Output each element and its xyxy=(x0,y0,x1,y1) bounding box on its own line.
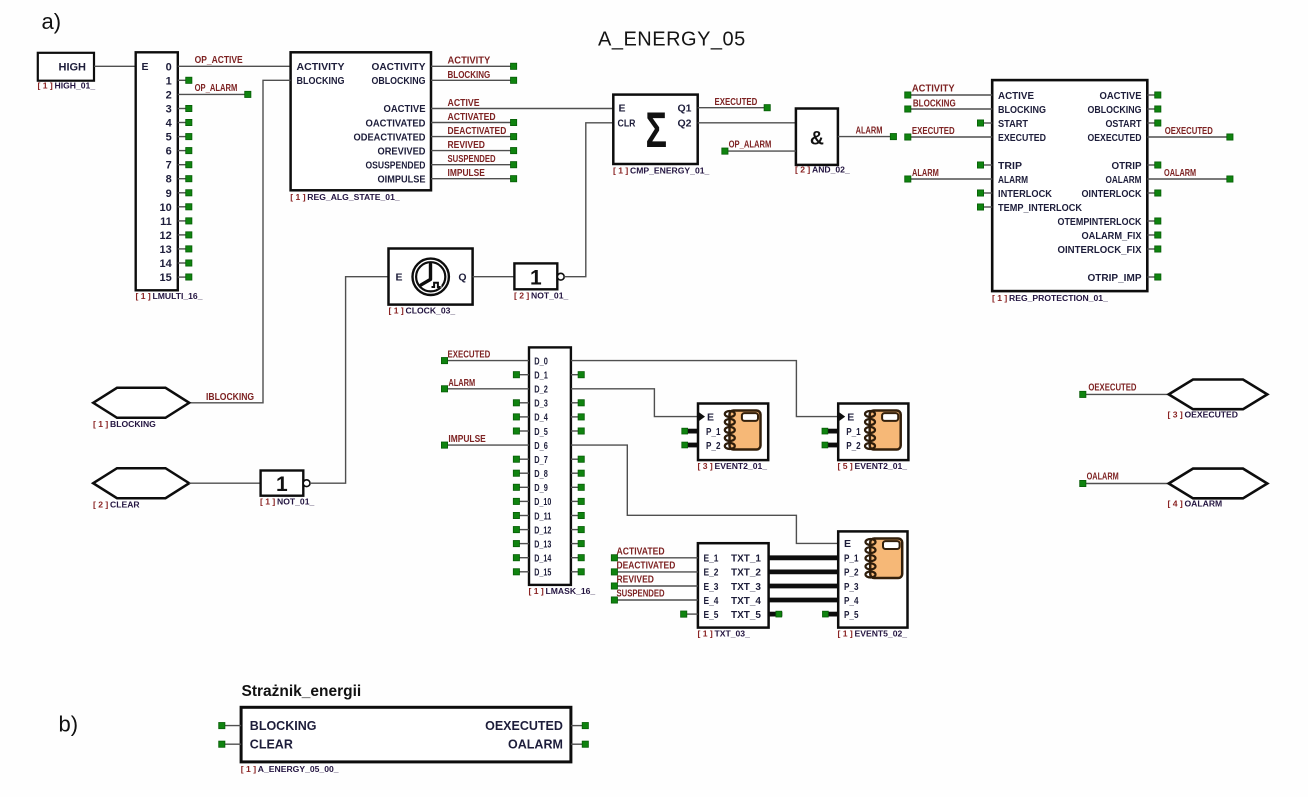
svg-text:E_3: E_3 xyxy=(704,581,719,593)
svg-text:TXT_1: TXT_1 xyxy=(731,553,761,565)
wire D_0 to EVENT2-5 E xyxy=(571,361,838,417)
net REVIVED wire to E_3 xyxy=(611,583,698,589)
pin OALARM stub b xyxy=(571,741,589,747)
summation block CMP_ENERGY U2 xyxy=(613,95,697,164)
svg-text:E_5: E_5 xyxy=(704,609,719,621)
svg-text:BLOCKING: BLOCKING xyxy=(913,99,956,110)
event block EVENT2 instance 3 xyxy=(682,404,768,461)
net SUSPENDED wire xyxy=(431,162,517,168)
svg-text:a): a) xyxy=(42,9,62,34)
net BLOCKING wire xyxy=(431,77,517,83)
net ACTIVE wire xyxy=(431,108,613,110)
svg-text:D_1: D_1 xyxy=(534,371,548,382)
svg-text:TRIP: TRIP xyxy=(998,160,1022,172)
svg-text:IBLOCKING: IBLOCKING xyxy=(206,392,254,403)
svg-text:IMPULSE: IMPULSE xyxy=(448,434,486,445)
label [1] EVENT5_02_ xyxy=(838,629,908,639)
label [2] NOT_01_ xyxy=(514,291,568,301)
label [2] AND_02_ xyxy=(795,165,850,175)
svg-text:CLOCK_03_: CLOCK_03_ xyxy=(406,306,456,316)
label [1] TXT_03_ xyxy=(698,629,751,639)
svg-text:[ 1 ]: [ 1 ] xyxy=(992,293,1007,303)
svg-text:REG_PROTECTION_01_: REG_PROTECTION_01_ xyxy=(1009,293,1108,303)
output connector hexagon OEXECUTED xyxy=(1169,380,1268,410)
net OP_ALARM wire to AND xyxy=(722,148,796,154)
net label SUSPENDED xyxy=(448,154,496,165)
net label ACTIVITY xyxy=(448,56,491,67)
label [1] REG_PROTECTION_01_ xyxy=(992,293,1108,303)
svg-text:Σ: Σ xyxy=(646,102,668,158)
svg-text:OP_ALARM: OP_ALARM xyxy=(729,139,772,150)
net EXECUTED wire from Q1 xyxy=(698,105,771,111)
svg-text:OSUSPENDED: OSUSPENDED xyxy=(366,160,426,172)
svg-text:8: 8 xyxy=(166,174,172,186)
pin OALARM_FIX stub xyxy=(1147,232,1161,238)
svg-text:[ 1 ]: [ 1 ] xyxy=(136,291,151,301)
net label ACTIVATED xyxy=(617,547,665,558)
svg-text:[ 1 ]: [ 1 ] xyxy=(838,629,853,639)
svg-text:[ 1 ]: [ 1 ] xyxy=(241,764,256,774)
net label EXECUTED in xyxy=(912,126,955,137)
svg-text:OACTIVE: OACTIVE xyxy=(384,103,426,115)
net ALARM wire to D_2 xyxy=(441,386,529,392)
svg-text:OALARM: OALARM xyxy=(1164,168,1196,179)
label [1] HIGH_01_ xyxy=(38,81,96,91)
svg-text:P_1: P_1 xyxy=(844,553,859,565)
svg-text:P_2: P_2 xyxy=(706,440,721,452)
svg-text:OBLOCKING: OBLOCKING xyxy=(372,75,426,87)
wire D_2 to EVENT2-3 E xyxy=(571,389,698,417)
svg-text:P_2: P_2 xyxy=(846,440,861,452)
svg-text:[ 5 ]: [ 5 ] xyxy=(838,461,853,471)
constant source HIGH xyxy=(38,53,94,81)
pin TEMP_INTERLOCK stub xyxy=(977,204,992,210)
svg-text:E: E xyxy=(847,411,854,423)
label [1] NOT_01_ xyxy=(260,497,314,507)
net label ALARM D2 xyxy=(448,378,475,389)
svg-text:ACTIVITY: ACTIVITY xyxy=(912,84,955,95)
svg-text:E_4: E_4 xyxy=(704,595,719,607)
svg-text:REVIVED: REVIVED xyxy=(617,575,654,586)
svg-text:ACTIVATED: ACTIVATED xyxy=(617,547,665,558)
svg-text:D_15: D_15 xyxy=(534,568,551,579)
svg-text:[ 2 ]: [ 2 ] xyxy=(514,291,529,301)
svg-text:[ 1 ]: [ 1 ] xyxy=(93,419,108,429)
bus bar TXT_5 with terminal xyxy=(769,611,783,617)
svg-text:REVIVED: REVIVED xyxy=(448,140,485,151)
net label ACTIVATED xyxy=(448,112,496,123)
svg-text:D_3: D_3 xyxy=(534,399,548,410)
svg-text:D_14: D_14 xyxy=(534,554,551,565)
svg-text:EXECUTED: EXECUTED xyxy=(912,126,955,137)
net label IBLOCKING xyxy=(206,392,254,403)
svg-text:OACTIVE: OACTIVE xyxy=(1100,90,1142,102)
svg-text:ALARM: ALARM xyxy=(856,126,883,137)
svg-text:D_12: D_12 xyxy=(534,525,551,536)
svg-text:1: 1 xyxy=(276,473,288,496)
svg-text:P_1: P_1 xyxy=(706,426,721,438)
net EXECUTED wire to D_0 xyxy=(441,358,529,364)
svg-text:HIGH: HIGH xyxy=(59,62,87,74)
net label OALARM xyxy=(1087,472,1119,483)
svg-text:Q2: Q2 xyxy=(677,118,691,130)
svg-text:11: 11 xyxy=(160,216,172,228)
svg-text:ACTIVITY: ACTIVITY xyxy=(448,56,491,67)
svg-text:OEXECUTED: OEXECUTED xyxy=(1088,382,1136,393)
net ALARM wire from AND xyxy=(838,134,897,140)
svg-text:E: E xyxy=(619,103,626,115)
net DEACTIVATED wire to E_2 xyxy=(611,569,698,575)
function block REG_ALG_STATE U1 xyxy=(291,52,431,190)
net label REVIVED xyxy=(617,575,654,586)
pin OTRIP_IMP stub xyxy=(1147,274,1161,280)
net label ACTIVITY in xyxy=(912,84,955,95)
svg-text:EVENT2_01_: EVENT2_01_ xyxy=(715,461,768,471)
label [1] LMULTI_16_ xyxy=(136,291,203,301)
svg-text:12: 12 xyxy=(160,230,172,242)
svg-text:OTRIP_IMP: OTRIP_IMP xyxy=(1088,272,1142,284)
svg-text:E: E xyxy=(707,411,714,423)
svg-text:E: E xyxy=(844,538,851,550)
svg-text:[ 1 ]: [ 1 ] xyxy=(698,629,713,639)
svg-text:OTEMPINTERLOCK: OTEMPINTERLOCK xyxy=(1058,216,1142,228)
svg-text:D_6: D_6 xyxy=(534,441,548,452)
svg-text:E: E xyxy=(396,272,403,284)
svg-text:OREVIVED: OREVIVED xyxy=(378,145,426,157)
net label IMPULSE D6 xyxy=(448,434,486,445)
svg-text:1: 1 xyxy=(166,75,172,87)
NOT gate U-NOT2 xyxy=(514,263,564,289)
pin OINTERLOCK stub xyxy=(1147,190,1161,196)
svg-text:OALARM: OALARM xyxy=(1185,499,1223,509)
svg-text:CLEAR: CLEAR xyxy=(250,737,293,751)
svg-text:BLOCKING: BLOCKING xyxy=(250,719,317,733)
svg-text:D_4: D_4 xyxy=(534,413,548,424)
net label SUSPENDED xyxy=(617,589,665,600)
net label OALARM out xyxy=(1164,168,1196,179)
macro block A_ENERGY_05_00 xyxy=(241,707,571,762)
svg-text:CMP_ENERGY_01_: CMP_ENERGY_01_ xyxy=(630,166,710,176)
net OALARM wire out xyxy=(1147,176,1233,182)
pin E_5 stub xyxy=(681,611,698,617)
svg-text:BLOCKING: BLOCKING xyxy=(297,75,345,87)
svg-text:ALARM: ALARM xyxy=(912,168,939,179)
net label ALARM in xyxy=(912,168,939,179)
svg-text:[ 3 ]: [ 3 ] xyxy=(698,461,713,471)
net ALARM wire in xyxy=(905,176,993,182)
LMASK output stubs xyxy=(571,372,584,575)
svg-text:OINTERLOCK_FIX: OINTERLOCK_FIX xyxy=(1058,244,1142,256)
net ACTIVATED wire to E_1 xyxy=(611,555,698,561)
svg-text:DEACTIVATED: DEACTIVATED xyxy=(617,561,676,572)
svg-text:OEXECUTED: OEXECUTED xyxy=(1088,132,1142,144)
bus bar P_5 with terminal xyxy=(823,611,839,617)
svg-text:5: 5 xyxy=(166,132,172,144)
wire Q2 to AND xyxy=(698,122,796,124)
svg-text:P_4: P_4 xyxy=(844,595,859,607)
svg-text:OIMPULSE: OIMPULSE xyxy=(378,174,426,186)
svg-text:&: & xyxy=(810,127,824,149)
svg-text:D_9: D_9 xyxy=(534,483,548,494)
svg-text:LMASK_16_: LMASK_16_ xyxy=(546,586,596,596)
svg-text:b): b) xyxy=(59,712,79,737)
wire NOT2 out to CMP CLR xyxy=(564,123,613,277)
svg-text:EXECUTED: EXECUTED xyxy=(998,132,1046,144)
svg-text:Q: Q xyxy=(458,272,466,284)
net OEXECUTED wire out xyxy=(1147,134,1233,140)
svg-text:3: 3 xyxy=(166,104,172,116)
svg-text:4: 4 xyxy=(166,118,173,130)
net BLOCKING wire in xyxy=(905,106,993,112)
svg-text:A_ENERGY_05_00_: A_ENERGY_05_00_ xyxy=(258,764,339,774)
pin OTRIP stub xyxy=(1147,162,1161,168)
pin OSTART stub xyxy=(1147,120,1161,126)
net ACTIVATED wire xyxy=(431,119,517,125)
svg-text:D_5: D_5 xyxy=(534,427,548,438)
svg-text:P_2: P_2 xyxy=(844,567,859,579)
label [2] CLEAR xyxy=(93,500,140,510)
svg-text:[ 1 ]: [ 1 ] xyxy=(290,192,305,202)
svg-text:OALARM: OALARM xyxy=(1106,174,1142,186)
svg-text:NOT_01_: NOT_01_ xyxy=(277,497,314,507)
svg-text:OTRIP: OTRIP xyxy=(1112,160,1142,172)
svg-text:CLR: CLR xyxy=(618,118,636,130)
net label DEACTIVATED xyxy=(448,126,507,137)
section label a) xyxy=(42,9,62,34)
svg-text:BLOCKING: BLOCKING xyxy=(448,70,491,81)
net label OEXECUTED out xyxy=(1165,126,1213,137)
pin START stub xyxy=(977,120,992,126)
svg-text:[ 4 ]: [ 4 ] xyxy=(1168,499,1183,509)
net label DEACTIVATED xyxy=(617,561,676,572)
svg-text:13: 13 xyxy=(160,244,172,256)
svg-text:OEXECUTED: OEXECUTED xyxy=(1185,410,1238,420)
svg-text:TXT_2: TXT_2 xyxy=(731,567,761,579)
svg-text:OEXECUTED: OEXECUTED xyxy=(485,719,563,733)
svg-text:ACTIVE: ACTIVE xyxy=(998,90,1034,102)
NOT gate U-NOT1 xyxy=(261,471,310,497)
net EXECUTED wire in xyxy=(905,134,993,140)
svg-text:14: 14 xyxy=(160,258,173,270)
svg-text:7: 7 xyxy=(166,160,172,172)
svg-text:OEXECUTED: OEXECUTED xyxy=(1165,126,1213,137)
svg-text:OALARM: OALARM xyxy=(508,737,563,751)
net OP_ACTIVE wire xyxy=(178,65,291,67)
svg-text:10: 10 xyxy=(160,202,172,214)
pin OINTERLOCK_FIX stub xyxy=(1147,246,1161,252)
input connector hexagon BLOCKING xyxy=(93,388,189,418)
pin OACTIVE stub xyxy=(1147,92,1161,98)
svg-text:1: 1 xyxy=(530,266,542,289)
clock generator CLOCK U-CLK xyxy=(389,249,473,305)
net label OEXECUTED xyxy=(1088,382,1136,393)
net IBLOCKING wire xyxy=(189,80,290,403)
wire D_6 to EVENT5 E xyxy=(571,445,838,543)
svg-text:ACTIVITY: ACTIVITY xyxy=(297,61,345,73)
wire HIGH to LMULTI E xyxy=(94,65,136,67)
net label OP_ALARM xyxy=(195,83,238,94)
section label b) xyxy=(59,712,79,737)
svg-text:DEACTIVATED: DEACTIVATED xyxy=(448,126,507,137)
pin OTEMPINTERLOCK stub xyxy=(1147,218,1161,224)
label [1] A_ENERGY_05_00_ xyxy=(241,764,339,774)
svg-text:TXT_5: TXT_5 xyxy=(731,609,761,621)
svg-text:TEMP_INTERLOCK: TEMP_INTERLOCK xyxy=(998,202,1082,214)
svg-text:[ 3 ]: [ 3 ] xyxy=(1168,410,1183,420)
svg-text:ACTIVATED: ACTIVATED xyxy=(448,112,496,123)
wire CLEAR to NOT xyxy=(189,482,260,484)
AND gate U3 xyxy=(796,109,838,165)
svg-text:EVENT5_02_: EVENT5_02_ xyxy=(855,629,908,639)
wire NOT1 out to CLOCK E xyxy=(310,277,389,484)
svg-text:OACTIVITY: OACTIVITY xyxy=(372,61,426,73)
net OALARM wire to connector xyxy=(1080,480,1169,486)
net label ALARM xyxy=(856,126,883,137)
svg-text:TXT_03_: TXT_03_ xyxy=(715,629,751,639)
net label REVIVED xyxy=(448,140,485,151)
net SUSPENDED wire to E_4 xyxy=(611,597,698,603)
net REVIVED wire xyxy=(431,148,517,154)
net IMPULSE wire to D_6 xyxy=(441,442,529,448)
svg-text:D_0: D_0 xyxy=(534,356,548,367)
net label EXECUTED xyxy=(715,97,758,108)
svg-text:Strażnik_energii: Strażnik_energii xyxy=(242,683,362,700)
svg-text:A_ENERGY_05: A_ENERGY_05 xyxy=(598,29,746,51)
net label ACTIVE xyxy=(448,98,480,109)
svg-text:ALARM: ALARM xyxy=(998,174,1028,186)
svg-text:ACTIVE: ACTIVE xyxy=(448,98,480,109)
svg-text:D_8: D_8 xyxy=(534,469,548,480)
label [1] LMASK_16_ xyxy=(529,586,596,596)
net label BLOCKING in xyxy=(913,99,956,110)
svg-text:OACTIVATED: OACTIVATED xyxy=(366,117,426,129)
svg-text:OSTART: OSTART xyxy=(1106,118,1142,130)
net label OP_ACTIVE xyxy=(195,55,243,66)
svg-text:ALARM: ALARM xyxy=(448,378,475,389)
pin OBLOCKING stub xyxy=(1147,106,1161,112)
svg-text:OP_ALARM: OP_ALARM xyxy=(195,83,238,94)
net label BLOCKING xyxy=(448,70,491,81)
svg-text:D_10: D_10 xyxy=(534,497,551,508)
svg-text:NOT_01_: NOT_01_ xyxy=(531,291,568,301)
label [3] EVENT2_01_ xyxy=(698,461,768,471)
svg-text:EXECUTED: EXECUTED xyxy=(715,97,758,108)
output connector hexagon OALARM xyxy=(1169,469,1268,499)
bus bars TXT_1-4 to P_1-4 xyxy=(769,558,839,600)
label [1] CMP_ENERGY_01_ xyxy=(613,166,710,176)
svg-text:REG_ALG_STATE_01_: REG_ALG_STATE_01_ xyxy=(307,192,400,202)
event block EVENT2 instance 5 xyxy=(822,404,908,461)
pin OEXECUTED stub b xyxy=(571,723,589,729)
label [1] BLOCKING xyxy=(93,419,156,429)
svg-text:P_5: P_5 xyxy=(844,609,859,621)
svg-text:CLEAR: CLEAR xyxy=(110,500,140,510)
svg-text:[ 1 ]: [ 1 ] xyxy=(38,81,53,91)
svg-text:TXT_3: TXT_3 xyxy=(731,581,761,593)
pin CLEAR stub b xyxy=(219,741,241,747)
svg-text:9: 9 xyxy=(166,188,172,200)
svg-text:OP_ACTIVE: OP_ACTIVE xyxy=(195,55,243,66)
mask block LMASK_16 U5 xyxy=(529,347,571,585)
svg-text:[ 1 ]: [ 1 ] xyxy=(389,306,404,316)
LMASK input stubs xyxy=(513,372,529,575)
svg-text:OALARM_FIX: OALARM_FIX xyxy=(1082,230,1142,242)
label [1] REG_ALG_STATE_01_ xyxy=(290,192,400,202)
input connector hexagon CLEAR xyxy=(93,468,189,498)
svg-text:START: START xyxy=(998,118,1029,130)
svg-text:6: 6 xyxy=(166,146,172,158)
net OP_ALARM wire xyxy=(178,91,251,97)
svg-text:AND_02_: AND_02_ xyxy=(812,165,850,175)
label [3] OEXECUTED xyxy=(1168,410,1238,420)
svg-text:15: 15 xyxy=(160,272,172,284)
svg-text:BLOCKING: BLOCKING xyxy=(998,104,1046,116)
svg-text:P_3: P_3 xyxy=(844,581,859,593)
svg-text:[ 1 ]: [ 1 ] xyxy=(529,586,544,596)
title A_ENERGY_05 xyxy=(598,29,746,51)
net OEXECUTED wire to connector xyxy=(1080,391,1169,397)
svg-text:SUSPENDED: SUSPENDED xyxy=(448,154,496,165)
function block REG_PROTECTION U4 xyxy=(992,80,1147,291)
demultiplexer LMULTI_16 U-LMULTI xyxy=(136,52,178,290)
pin BLOCKING stub b xyxy=(219,723,241,729)
svg-text:E_2: E_2 xyxy=(704,567,719,579)
svg-text:[ 1 ]: [ 1 ] xyxy=(613,166,628,176)
svg-text:TXT_4: TXT_4 xyxy=(731,595,761,607)
net ACTIVITY wire xyxy=(431,63,517,69)
svg-text:EXECUTED: EXECUTED xyxy=(448,350,491,361)
svg-text:P_1: P_1 xyxy=(846,426,861,438)
wire CLOCK Q to NOT2 xyxy=(473,276,515,278)
svg-text:HIGH_01_: HIGH_01_ xyxy=(55,81,96,91)
svg-text:OBLOCKING: OBLOCKING xyxy=(1088,104,1142,116)
event block EVENT5_02 U7 xyxy=(838,531,907,627)
svg-text:[ 1 ]: [ 1 ] xyxy=(260,497,275,507)
svg-text:E: E xyxy=(142,61,149,73)
svg-text:D_2: D_2 xyxy=(534,385,548,396)
pin INTERLOCK stub xyxy=(977,190,992,196)
svg-text:E_1: E_1 xyxy=(704,553,719,565)
label [4] OALARM xyxy=(1168,499,1223,509)
svg-text:OINTERLOCK: OINTERLOCK xyxy=(1082,188,1142,200)
label [5] EVENT2_01_ xyxy=(838,461,908,471)
text block TXT_03 U6 xyxy=(698,543,769,627)
svg-text:Q1: Q1 xyxy=(677,103,691,115)
net label IMPULSE xyxy=(448,168,486,179)
net ACTIVITY wire in xyxy=(905,92,993,98)
net label OP_ALARM xyxy=(729,139,772,150)
svg-text:LMULTI_16_: LMULTI_16_ xyxy=(153,291,203,301)
svg-text:D_11: D_11 xyxy=(534,511,551,522)
svg-text:ODEACTIVATED: ODEACTIVATED xyxy=(354,131,426,143)
svg-text:[ 2 ]: [ 2 ] xyxy=(93,500,108,510)
pin TRIP stub xyxy=(977,162,992,168)
svg-text:IMPULSE: IMPULSE xyxy=(448,168,486,179)
LMULTI output stubs with terminals xyxy=(178,77,192,280)
svg-text:0: 0 xyxy=(166,61,172,73)
svg-text:BLOCKING: BLOCKING xyxy=(110,419,156,429)
svg-text:OALARM: OALARM xyxy=(1087,472,1119,483)
svg-text:EVENT2_01_: EVENT2_01_ xyxy=(855,461,908,471)
title Straznik_energii xyxy=(242,683,362,700)
net IMPULSE wire xyxy=(431,176,517,182)
svg-text:D_7: D_7 xyxy=(534,455,548,466)
net label EXECUTED D0 xyxy=(448,350,491,361)
label [1] CLOCK_03_ xyxy=(389,306,456,316)
svg-text:D_13: D_13 xyxy=(534,539,551,550)
svg-text:SUSPENDED: SUSPENDED xyxy=(617,589,665,600)
svg-text:[ 2 ]: [ 2 ] xyxy=(795,165,810,175)
